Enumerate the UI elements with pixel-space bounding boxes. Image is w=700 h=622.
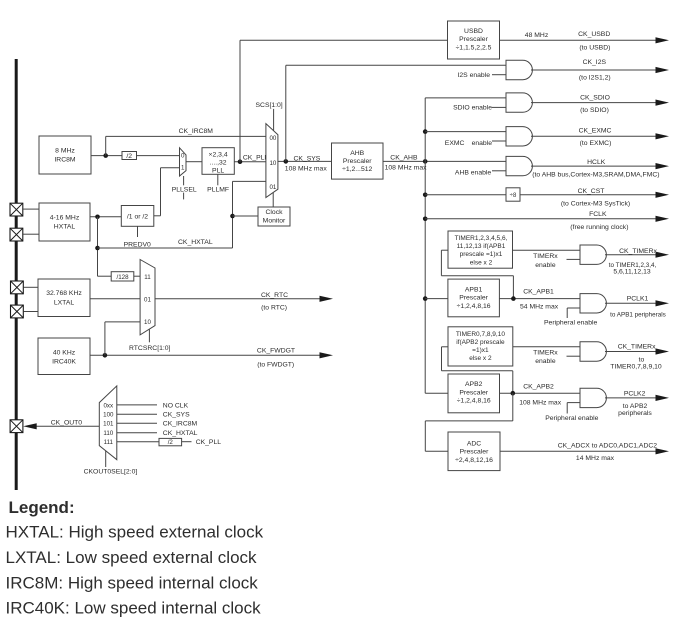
svg-text:CK_HXTAL: CK_HXTAL (178, 239, 213, 246)
svg-text:48 MHz: 48 MHz (525, 32, 549, 39)
node APB1 bus junction (423, 296, 428, 301)
svg-text:LXTAL: LXTAL (54, 300, 74, 307)
svg-text:USBD: USBD (464, 28, 483, 35)
svg-text:SDIO enable: SDIO enable (453, 105, 492, 112)
svg-text:IRC8M: IRC8M (54, 157, 75, 164)
wire PCLK1 (605, 302, 657, 304)
node CK_APB1 junction (511, 296, 516, 301)
svg-text:Prescaler: Prescaler (343, 158, 372, 165)
node CK_PLL junction (238, 159, 243, 164)
and-gate PCLK1 peripheral enable (580, 294, 606, 313)
prescaler ADC (448, 432, 500, 471)
wire CK_SYS riser to I2S gate (285, 65, 287, 161)
wire PLLSEL mux to PLL (186, 161, 202, 163)
wire CK_SDIO (531, 102, 657, 104)
svg-text:100: 100 (103, 412, 114, 419)
svg-text:TIMER0,7,8,9,10: TIMER0,7,8,9,10 (456, 331, 506, 338)
wire CK_PLL to SCS mux input 10 (234, 161, 266, 163)
svg-text:CK_FWDGT: CK_FWDGT (257, 348, 295, 355)
svg-text:CK_EXMC: CK_EXMC (579, 128, 612, 135)
mux CKOUT0SEL (99, 386, 117, 460)
svg-text:101: 101 (103, 421, 114, 428)
svg-text:CK_RTC: CK_RTC (261, 292, 288, 299)
pin pad OSC32IN (LXTAL) (11, 281, 24, 294)
wire IRC40K riser to RTCSRC input 10 (104, 322, 106, 355)
svg-text:CK_CST: CK_CST (578, 188, 605, 195)
wire HXTAL pin1 to box (23, 208, 39, 210)
oscillator IRC40K (40 KHz) (38, 338, 90, 375)
wire CK_SYS output (278, 160, 332, 162)
and-gate PCLK2 peripheral enable (580, 388, 606, 407)
svg-text:8 MHz: 8 MHz (55, 147, 75, 154)
oscillator HXTAL (4-16 MHz) (39, 203, 90, 241)
svg-text:TIMERx: TIMERx (533, 349, 558, 356)
wire CK_PLL riser to USBD prescaler (239, 40, 241, 161)
wire CK_APB2 (500, 392, 581, 394)
node CST bus junction (423, 193, 428, 198)
mux RTCSRC (140, 260, 155, 335)
svg-text:=1)x1: =1)x1 (472, 347, 489, 354)
svg-text:÷8: ÷8 (510, 193, 517, 199)
svg-text:Legend:: Legend: (9, 498, 75, 517)
wire /2 to PLLSEL mux (137, 155, 180, 157)
svg-text:AHB enable: AHB enable (455, 169, 491, 176)
svg-text:Prescaler: Prescaler (459, 295, 488, 302)
svg-text:(to AHB bus,Cortex-M3,SRAM,DMA: (to AHB bus,Cortex-M3,SRAM,DMA,FMC) (532, 171, 659, 178)
svg-text:IRC8M: High speed internal clo: IRC8M: High speed internal clock (6, 573, 259, 592)
wire CK_CST (520, 194, 657, 196)
wire CK_RTC (155, 298, 320, 300)
wire bus to EXMC gate (425, 131, 506, 133)
svg-text:RTCSRC[1:0]: RTCSRC[1:0] (129, 345, 171, 352)
svg-text:CK_APB2: CK_APB2 (523, 383, 554, 390)
svg-text:to APB1 peripherals: to APB1 peripherals (610, 311, 666, 318)
svg-text:if(APB2 prescale: if(APB2 prescale (456, 339, 505, 346)
wire AHB distribution bus (424, 98, 426, 393)
svg-text:else x 2: else x 2 (470, 259, 493, 266)
svg-text:CK_USBD: CK_USBD (578, 31, 610, 38)
wire PREDV0 select stub (137, 226, 139, 237)
svg-text:CK_AHB: CK_AHB (390, 154, 418, 161)
oscillator LXTAL (32.768 KHz) (38, 279, 90, 317)
svg-text:(to EXMC): (to EXMC) (580, 140, 612, 147)
divider /8 (SysTick) (506, 188, 520, 201)
wire HCLK (531, 165, 657, 167)
wire RTCSRC select stub (148, 330, 150, 343)
wire CKOUT0 input stub CK_PLL via /2 (117, 441, 159, 443)
svg-text:40 KHz: 40 KHz (53, 349, 76, 356)
svg-text:Prescaler: Prescaler (459, 36, 488, 43)
power rail (thick vertical bus line) (15, 59, 18, 490)
svg-text:IRC40K: IRC40K (52, 359, 76, 366)
svg-text:54 MHz max: 54 MHz max (520, 303, 559, 310)
wire HXTAL pin2 to box (23, 233, 39, 235)
svg-text:Peripheral enable: Peripheral enable (545, 415, 598, 422)
wire FCLK (425, 218, 656, 220)
wire bus to SDIO gate (425, 97, 506, 99)
svg-text:HXTAL: High speed external clo: HXTAL: High speed external clock (6, 523, 264, 542)
mux SCS (system clock select) (266, 124, 278, 198)
svg-text:TIMERx: TIMERx (533, 253, 558, 260)
pin pad OSCOUT (HXTAL) (10, 228, 23, 241)
wire PREDV0 to PLLSEL mux input 1 (154, 215, 161, 217)
wire CK_APB1 (499, 298, 580, 300)
svg-text:CK_APB1: CK_APB1 (523, 289, 554, 296)
wire /128 feed (98, 275, 112, 277)
wire CKOUT0 input stub NO CLK (117, 404, 157, 406)
svg-text:CK_IRC8M: CK_IRC8M (179, 128, 214, 135)
and-gate TIMERx enable (APB2) (580, 342, 606, 361)
svg-text:APB1: APB1 (465, 286, 483, 293)
svg-text:0: 0 (181, 153, 185, 160)
svg-text:/2: /2 (168, 439, 174, 446)
svg-text:108 MHz max: 108 MHz max (385, 165, 428, 172)
svg-text:0xx: 0xx (103, 402, 114, 409)
wire CK_HXTAL horizontal (98, 247, 233, 249)
wire PLLMF stub (217, 174, 219, 185)
divider PREDV0 (/1 or /2) (121, 206, 154, 227)
svg-text:TIMER1,2,3,4,5,6,: TIMER1,2,3,4,5,6, (455, 235, 508, 242)
wire TIMER0 output (513, 346, 580, 348)
svg-text:IRC40K: Low speed internal clo: IRC40K: Low speed internal clock (6, 599, 262, 618)
svg-text:enable: enable (472, 140, 493, 147)
svg-text:....,32: ....,32 (210, 160, 227, 167)
wire bus to APB1 prescaler (425, 298, 448, 300)
node IRC8M output junction (103, 153, 108, 158)
pin pad OSC32OUT (LXTAL) (11, 305, 24, 318)
logic block TIMER0 multiplier (448, 327, 513, 366)
svg-text:÷2,4,8,12,16: ÷2,4,8,12,16 (455, 457, 493, 464)
and-gate EXMC enable (506, 127, 532, 146)
node CK_SYS junction (284, 159, 289, 164)
svg-text:LXTAL: Low speed external cloc: LXTAL: Low speed external clock (6, 548, 258, 567)
svg-text:NO CLK: NO CLK (163, 402, 189, 409)
svg-text:00: 00 (269, 135, 276, 142)
wire CK_IRC8M to SCS mux input 00 (106, 135, 266, 137)
svg-text:Prescaler: Prescaler (459, 390, 488, 397)
divider /128 (111, 272, 134, 281)
svg-text:Clock: Clock (266, 209, 284, 216)
svg-text:10: 10 (144, 319, 151, 326)
wire bus to CST divider (425, 194, 506, 196)
svg-text:(to RTC): (to RTC) (261, 305, 287, 312)
wire TIMER1 output (513, 249, 581, 251)
svg-text:÷1,2...512: ÷1,2...512 (342, 166, 372, 173)
svg-text:Peripheral enable: Peripheral enable (544, 319, 597, 326)
svg-text:/1 or /2: /1 or /2 (127, 213, 148, 220)
svg-text:CK_SYS: CK_SYS (163, 412, 190, 419)
wire CKOUT0SEL select stub (105, 451, 107, 467)
svg-text:else x 2: else x 2 (469, 355, 492, 362)
wire HXTAL down riser (97, 217, 99, 276)
wire TIMER0 feed path (512, 371, 514, 393)
wire to clock monitor (233, 215, 259, 217)
wire CK_AHB (383, 160, 506, 162)
wire CK_HXTAL riser to SCS mux input 01 (232, 181, 234, 248)
svg-text:(to I2S1,2): (to I2S1,2) (579, 74, 611, 81)
svg-text:÷1,2,4,8,16: ÷1,2,4,8,16 (457, 303, 491, 310)
svg-text:CK_SDIO: CK_SDIO (580, 95, 610, 102)
svg-text:(to Cortex-M3 SysTick): (to Cortex-M3 SysTick) (561, 200, 630, 207)
wire CK_EXMC (531, 135, 657, 137)
prescaler APB1 (448, 279, 500, 317)
divider /2 (PLL input) (122, 152, 137, 160)
svg-text:CK_TIMERx: CK_TIMERx (619, 248, 657, 255)
svg-text:peripherals: peripherals (618, 410, 652, 417)
svg-text:ADC: ADC (467, 440, 481, 447)
svg-text:I2S enable: I2S enable (457, 72, 490, 79)
svg-text:FCLK: FCLK (589, 211, 607, 218)
svg-text:(to USBD): (to USBD) (579, 45, 610, 52)
mux PLLSEL (180, 148, 187, 176)
svg-text:CK_HXTAL: CK_HXTAL (163, 430, 198, 437)
and-gate I2S enable (506, 60, 532, 79)
svg-text:110: 110 (103, 430, 113, 437)
prescaler USBD (448, 21, 500, 59)
wire CKOUT0 input stub CK_IRC8M (117, 422, 157, 424)
pin pad CK_OUT0 (10, 420, 23, 433)
svg-text:PCLK2: PCLK2 (624, 391, 646, 398)
wire ADC feed path (512, 393, 514, 421)
logic block TIMER1 multiplier (448, 231, 513, 268)
wire TIMER1 feed path (512, 276, 514, 299)
oscillator IRC8M (8 MHz) (39, 136, 91, 174)
and-gate SDIO enable (506, 93, 532, 112)
svg-text:PREDV0: PREDV0 (124, 241, 151, 248)
svg-text:4-16 MHz: 4-16 MHz (50, 214, 80, 221)
wire bus to APB2 prescaler (425, 392, 448, 394)
svg-text:32.768 KHz: 32.768 KHz (46, 290, 82, 297)
node IRC40K junction (103, 353, 108, 358)
svg-text:(free running clock): (free running clock) (570, 224, 628, 231)
node FCLK bus junction (423, 217, 428, 222)
svg-text:/128: /128 (116, 274, 129, 281)
node CK_AHB bus junction (423, 159, 428, 164)
wire CK_USBD (500, 39, 656, 41)
svg-text:CK_TIMERx: CK_TIMERx (618, 344, 656, 351)
svg-text:CK_PLL: CK_PLL (196, 439, 222, 446)
svg-text:enable: enable (535, 262, 556, 269)
node clock monitor junction (230, 214, 235, 219)
wire CKOUT0 input stub CK_HXTAL (117, 432, 157, 434)
svg-text:TIMER0,7,8,9,10: TIMER0,7,8,9,10 (610, 364, 662, 371)
wire LXTAL pin1 to box (24, 286, 39, 288)
svg-text:×2,3,4: ×2,3,4 (209, 151, 228, 158)
svg-text:Monitor: Monitor (263, 218, 286, 225)
svg-text:PCLK1: PCLK1 (627, 296, 649, 303)
svg-text:14 MHz max: 14 MHz max (576, 455, 615, 462)
svg-text:1: 1 (181, 165, 185, 172)
node EXMC bus junction (423, 129, 428, 134)
svg-text:PLLMF: PLLMF (207, 186, 229, 193)
svg-text:PLL: PLL (212, 167, 224, 174)
svg-text:11,12,13 if(APB1: 11,12,13 if(APB1 (457, 243, 506, 250)
svg-text:01: 01 (269, 184, 276, 191)
wire CKOUT0 input stub CK_SYS (117, 413, 157, 415)
svg-text:01: 01 (144, 296, 151, 303)
wire IRC8M output (91, 155, 122, 157)
block Clock Monitor (258, 207, 290, 226)
wire CK_TIMERx (APB1) (605, 254, 656, 256)
prescaler AHB (332, 143, 384, 179)
svg-text:CK_OUT0: CK_OUT0 (51, 420, 83, 427)
wire PCLK2 (605, 397, 657, 399)
wire CK_ADCX (500, 450, 656, 452)
svg-text:CKOUT0SEL[2:0]: CKOUT0SEL[2:0] (84, 468, 138, 475)
pll block PLL x2,3,4...32 (202, 148, 234, 175)
svg-text:÷1,2,4,8,16: ÷1,2,4,8,16 (457, 398, 491, 405)
svg-text:(to SDIO): (to SDIO) (580, 107, 609, 114)
prescaler APB2 (448, 374, 500, 413)
svg-text:111: 111 (104, 439, 114, 446)
svg-text:prescale =1)x1: prescale =1)x1 (460, 251, 503, 258)
svg-text:enable: enable (535, 358, 556, 365)
node CK_HXTAL junction (95, 246, 100, 251)
node HXTAL output junction (95, 215, 100, 220)
svg-text:HCLK: HCLK (587, 159, 606, 166)
wire CK_TIMERx (APB2) (605, 351, 657, 353)
wire CK_IRC8M riser (105, 136, 107, 155)
svg-text:108 MHz max: 108 MHz max (519, 399, 562, 406)
wire /128 to RTCSRC mux input 11 (134, 275, 140, 277)
wire clock monitor stub (272, 193, 274, 207)
wire PLLSEL select stub (183, 176, 185, 185)
svg-text:AHB: AHB (350, 150, 364, 157)
and-gate TIMERx enable (APB1) (580, 245, 606, 264)
svg-text:CK_I2S: CK_I2S (583, 59, 607, 66)
svg-text:5,6,11,12,13: 5,6,11,12,13 (613, 269, 651, 276)
wire IRC40K output / CK_FWDGT (90, 354, 321, 356)
svg-text:Prescaler: Prescaler (460, 449, 489, 456)
svg-text:11: 11 (144, 274, 151, 281)
svg-text:CK_PLL: CK_PLL (243, 154, 269, 161)
wire CK_OUT0 output (36, 425, 99, 427)
svg-text:10: 10 (269, 160, 276, 167)
wire SCS select stub (273, 109, 275, 131)
svg-text:EXMC: EXMC (445, 140, 465, 147)
svg-text:/2: /2 (126, 153, 132, 160)
svg-text:108 MHz max: 108 MHz max (285, 166, 328, 173)
svg-text:÷1,1.5,2,2.5: ÷1,1.5,2,2.5 (456, 44, 492, 51)
svg-text:PLLSEL: PLLSEL (172, 186, 197, 193)
svg-text:(to FWDGT): (to FWDGT) (257, 362, 294, 369)
and-gate AHB enable (506, 156, 532, 175)
wire LXTAL pin2 to box (24, 311, 39, 313)
node CK_APB2 junction (511, 391, 516, 396)
svg-text:CK_SYS: CK_SYS (294, 155, 321, 162)
svg-text:SCS[1:0]: SCS[1:0] (256, 102, 283, 109)
pin pad OSCIN (HXTAL) (10, 203, 23, 216)
wire LXTAL to RTCSRC input 01 (90, 298, 140, 300)
svg-text:HXTAL: HXTAL (54, 224, 76, 231)
wire CK_I2S (531, 69, 656, 71)
svg-text:CK_IRC8M: CK_IRC8M (163, 421, 198, 428)
wire HXTAL output (90, 216, 121, 218)
svg-text:APB2: APB2 (465, 381, 483, 388)
svg-text:CK_ADCX to ADC0,ADC1,ADC2: CK_ADCX to ADC0,ADC1,ADC2 (558, 443, 658, 450)
